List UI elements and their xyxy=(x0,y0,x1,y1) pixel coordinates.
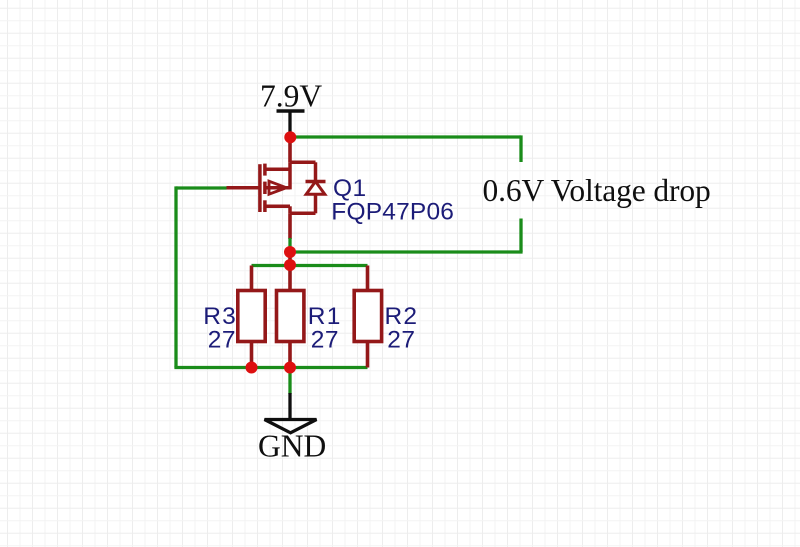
Q1 diode cathode wire xyxy=(314,162,318,181)
wire green left vertical xyxy=(174,186,177,367)
wire green top rail of resistors xyxy=(252,264,368,267)
wire green GND stub xyxy=(288,368,291,395)
wire green top: node to voltage-drop loop xyxy=(290,135,521,138)
Q1 diode cathode bar xyxy=(306,180,326,184)
junction node bottom rail R3 xyxy=(246,362,258,374)
wire green right vertical upper segment xyxy=(519,135,522,162)
ground symbol triangle xyxy=(265,420,317,433)
Q1 source stub bottom xyxy=(265,205,290,209)
wire green gate feedback horizontal xyxy=(176,186,227,189)
power symbol bar xyxy=(277,109,305,113)
wire maroon R1 bottom stub xyxy=(288,342,292,368)
resistor R1 body xyxy=(277,291,304,342)
Q1 drain bar vertical xyxy=(288,162,292,189)
wire black GND stem xyxy=(288,393,291,420)
Q1 gate bar xyxy=(258,164,262,212)
wire green short above node xyxy=(288,238,291,252)
Q1 drain stub top xyxy=(265,168,290,172)
svg-text:27: 27 xyxy=(208,326,236,353)
Q1 bottom branch from diode xyxy=(290,212,316,216)
Q1 source corner xyxy=(288,206,292,213)
Q1 diode anode wire xyxy=(314,194,318,213)
junction node bottom rail center xyxy=(284,362,296,374)
Q1 channel bottom segment xyxy=(263,200,267,212)
junction node source/loop xyxy=(284,246,296,258)
junction node resistor top rail xyxy=(284,259,296,271)
svg-text:27: 27 xyxy=(311,326,339,353)
resistor R2 body xyxy=(354,291,381,342)
svg-text:FQP47P06: FQP47P06 xyxy=(331,199,454,226)
wire maroon drain from node to Q1 xyxy=(288,137,292,162)
wire maroon between nodes down to R1 xyxy=(288,252,292,291)
transistor Q1 P-MOSFET symbol xyxy=(227,162,326,213)
wire green bottom rail xyxy=(174,366,367,369)
wire maroon R3 bottom stub xyxy=(250,342,254,368)
Q1 arrow triangle xyxy=(269,181,286,194)
wire maroon R2 bottom stub xyxy=(366,342,370,368)
wire maroon R2 top stub xyxy=(366,266,370,292)
junction node at 7.9V xyxy=(284,131,296,143)
svg-text:GND: GND xyxy=(258,429,326,464)
Q1 top branch to body diode xyxy=(290,161,316,165)
power symbol stem wire xyxy=(288,111,291,134)
resistor R3 body xyxy=(238,291,265,342)
Q1 channel middle segment xyxy=(263,182,267,194)
Q1 gate pin xyxy=(227,186,260,190)
wire maroon R3 top stub xyxy=(250,266,254,292)
Q1 channel top segment xyxy=(263,164,267,176)
wire green bottom return to source node xyxy=(290,250,523,253)
svg-text:0.6V Voltage drop: 0.6V Voltage drop xyxy=(483,173,711,208)
Q1 bulk stub middle with arrow line xyxy=(265,186,290,190)
svg-text:27: 27 xyxy=(387,326,415,353)
Q1 diode triangle xyxy=(306,182,325,195)
wire green right vertical lower segment xyxy=(519,219,522,253)
wire maroon source below Q1 xyxy=(288,213,292,239)
svg-text:7.9V: 7.9V xyxy=(260,79,322,114)
